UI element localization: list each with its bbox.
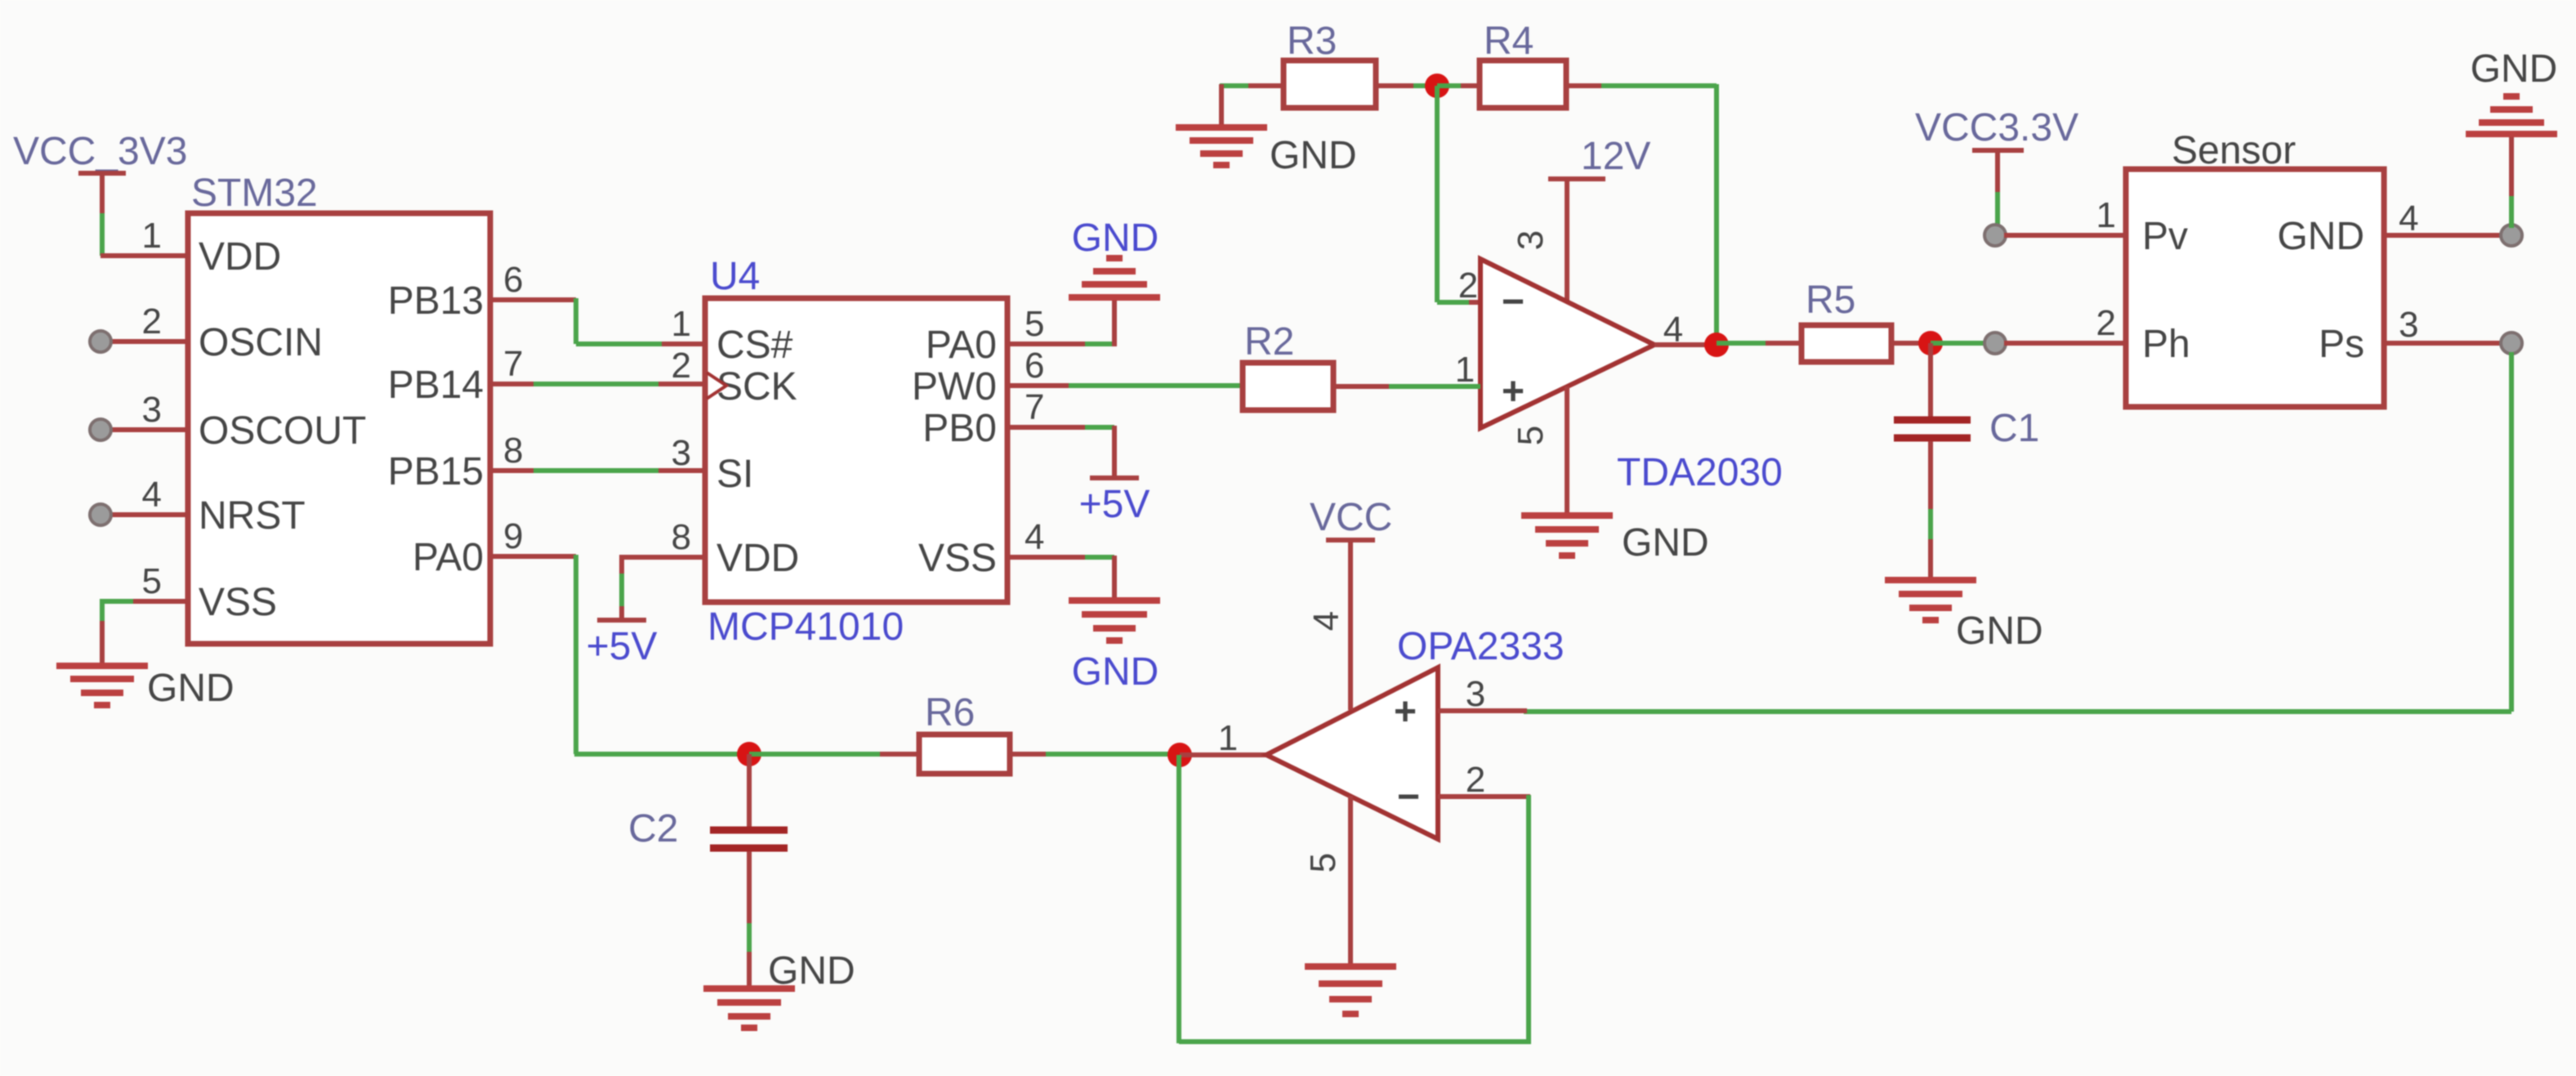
wire left of R3 — [1220, 84, 1284, 124]
wire output to R5 — [1717, 341, 1801, 346]
pin 7 PB14 — [388, 344, 535, 407]
node output junction TDA — [1704, 333, 1729, 357]
svg-text:STM32: STM32 — [191, 172, 318, 215]
ground GND at OPA pin 5 — [1305, 967, 1396, 1014]
pin 1 Pv — [2096, 195, 2189, 258]
svg-text:NRST: NRST — [199, 494, 306, 538]
svg-text:MCP41010: MCP41010 — [708, 605, 904, 649]
ground GND top right — [2466, 47, 2557, 134]
wire PA0 net to C2 node — [574, 752, 749, 757]
svg-text:PB15: PB15 — [388, 450, 484, 493]
node junction R5/C1 — [1918, 331, 1943, 355]
svg-text:R5: R5 — [1806, 279, 1855, 322]
wire R5 to node — [1891, 341, 1931, 346]
power flag VCC at OPA — [1310, 496, 1392, 710]
pin 8 PB15 — [388, 431, 535, 493]
pin 4 NRST — [90, 475, 306, 538]
pin 3 OSCOUT — [90, 390, 366, 453]
resistor R2 — [1243, 320, 1333, 410]
wire node down to TDA pin 2 — [1437, 86, 1480, 302]
svg-text:R2: R2 — [1244, 320, 1294, 364]
svg-text:6: 6 — [503, 260, 523, 300]
svg-text:PW0: PW0 — [912, 365, 997, 409]
svg-text:C1: C1 — [1989, 407, 2039, 450]
node junction C2 — [737, 742, 761, 766]
pin 4 VSS — [918, 517, 1114, 599]
power flag VCC3.3V — [1915, 106, 2078, 229]
svg-text:2: 2 — [1466, 760, 1485, 800]
svg-text:1: 1 — [672, 304, 691, 344]
wire Ps feedback down and left — [1524, 352, 2511, 712]
ground GND at C2 — [703, 949, 855, 1028]
svg-text:TDA2030: TDA2030 — [1617, 451, 1783, 494]
pin 4 GND — [2277, 137, 2522, 258]
svg-text:GND: GND — [768, 949, 855, 993]
svg-text:Ph: Ph — [2142, 323, 2190, 366]
svg-text:VDD: VDD — [199, 235, 281, 279]
wire node to Ph pin dot — [1931, 333, 2126, 354]
svg-text:3: 3 — [672, 433, 691, 473]
ground GND at TDA pin 5 — [1521, 516, 1709, 565]
svg-text:8: 8 — [503, 431, 523, 471]
svg-text:+5V: +5V — [1079, 483, 1150, 526]
svg-text:−: − — [1502, 280, 1525, 324]
wire PB13 to CS# — [576, 298, 705, 344]
pin 4 output wire TDA — [1654, 310, 1717, 350]
wire VCC_3V3 to VDD — [100, 213, 188, 256]
svg-text:2: 2 — [672, 346, 691, 386]
svg-text:VSS: VSS — [199, 581, 277, 624]
svg-text:+5V: +5V — [587, 625, 658, 668]
chip U4 MCP41010 box — [705, 255, 1007, 649]
svg-text:5: 5 — [1511, 426, 1551, 445]
ground GND at STM32 VSS — [56, 666, 234, 710]
pin 8 VDD — [622, 517, 799, 618]
wire node to R6 — [749, 752, 919, 757]
wire PB14 to SCK — [534, 382, 705, 386]
pin 9 PA0 — [413, 516, 576, 579]
pin 2 OSCIN — [90, 301, 323, 364]
wire R6 to OPA node — [1010, 752, 1180, 757]
resistor R6 — [919, 691, 1010, 774]
svg-text:Ps: Ps — [2319, 323, 2364, 366]
pin 1 CS# — [672, 304, 793, 367]
svg-text:OSCIN: OSCIN — [199, 321, 323, 364]
svg-text:Sensor: Sensor — [2172, 129, 2296, 172]
svg-text:1: 1 — [1218, 718, 1238, 758]
pin 3 SI — [672, 433, 754, 496]
pin 6 PB13 — [388, 260, 576, 323]
svg-text:Pv: Pv — [2142, 215, 2188, 258]
pin 5 wire OPA to ground — [1348, 796, 1353, 964]
svg-text:U4: U4 — [710, 255, 760, 298]
svg-text:5: 5 — [142, 561, 162, 601]
svg-text:GND: GND — [2277, 215, 2364, 258]
svg-text:+: + — [1394, 690, 1417, 734]
svg-text:4: 4 — [1025, 517, 1044, 557]
svg-text:3: 3 — [1511, 230, 1551, 250]
svg-text:CS#: CS# — [717, 324, 793, 367]
svg-text:2: 2 — [142, 301, 162, 342]
svg-text:+: + — [1502, 370, 1525, 413]
svg-text:4: 4 — [142, 475, 162, 515]
resistor R5 — [1801, 279, 1891, 362]
svg-text:8: 8 — [672, 517, 691, 557]
svg-text:C2: C2 — [628, 807, 678, 851]
wire node to R4 — [1437, 83, 1480, 88]
wire PB15 to SI — [534, 468, 705, 473]
svg-text:VCC_3V3: VCC_3V3 — [13, 130, 187, 173]
svg-text:VDD: VDD — [717, 537, 799, 580]
resistor R4 — [1480, 20, 1566, 108]
power flag +5V at MCP VDD — [587, 620, 658, 668]
svg-text:PB14: PB14 — [388, 364, 484, 407]
power flag VCC_3V3 — [13, 130, 187, 215]
node junction OPA pin 1 — [1167, 743, 1192, 767]
svg-text:OPA2333: OPA2333 — [1397, 625, 1565, 668]
svg-text:PA0: PA0 — [413, 536, 484, 579]
pin 2 Ph — [2096, 303, 2190, 366]
svg-text:4: 4 — [2399, 199, 2418, 239]
svg-text:−: − — [1397, 775, 1420, 819]
ground GND above MCP pin 5 — [1069, 217, 1160, 297]
pin 6 PW0 — [912, 346, 1070, 409]
ground GND at C1 — [1885, 580, 2043, 653]
wire R4 to output node — [1566, 84, 1717, 345]
svg-text:1: 1 — [142, 216, 162, 256]
pin dot and wire to Sensor Pv — [1984, 225, 2126, 246]
svg-text:5: 5 — [1025, 304, 1044, 344]
power flag 12V — [1548, 135, 1650, 301]
svg-text:GND: GND — [1072, 650, 1159, 694]
svg-text:SI: SI — [717, 453, 753, 496]
svg-text:GND: GND — [1072, 217, 1159, 260]
svg-text:6: 6 — [1025, 346, 1044, 386]
wire PW0 to R2 — [1069, 383, 1243, 388]
op-amp U? TDA2030 — [1480, 259, 1783, 494]
capacitor C2 — [628, 754, 788, 986]
svg-text:3: 3 — [2399, 305, 2418, 345]
ground GND below MCP pin 4 — [1069, 601, 1160, 694]
svg-text:R6: R6 — [925, 691, 975, 734]
svg-text:2: 2 — [1458, 266, 1478, 306]
resistor R3 — [1284, 20, 1376, 108]
chip Sensor box — [2126, 129, 2384, 407]
pin 1 VDD — [142, 216, 282, 279]
svg-text:1: 1 — [2096, 195, 2116, 235]
pin 2 SCK — [672, 346, 797, 409]
op-amp U? OPA2333 — [1266, 625, 1565, 839]
svg-text:GND: GND — [1270, 134, 1357, 177]
pin 3 wire OPA — [1438, 674, 1527, 714]
pin 1 wire OPA — [1180, 718, 1268, 758]
power flag +5V at MCP PB0 — [1079, 478, 1150, 526]
svg-text:3: 3 — [1466, 674, 1485, 714]
capacitor C1 — [1894, 343, 2039, 578]
wire PA0 net vertical — [574, 555, 578, 754]
svg-text:VSS: VSS — [918, 537, 997, 580]
node junction R3/R4 — [1425, 74, 1449, 98]
svg-text:GND: GND — [147, 667, 234, 710]
svg-text:3: 3 — [142, 390, 162, 430]
svg-text:9: 9 — [503, 516, 523, 556]
svg-text:5: 5 — [1303, 853, 1343, 873]
svg-text:VCC: VCC — [1310, 496, 1392, 539]
svg-text:R4: R4 — [1484, 20, 1534, 63]
svg-text:GND: GND — [2471, 47, 2558, 91]
svg-text:7: 7 — [1025, 387, 1044, 427]
ground GND left of R3 — [1176, 127, 1357, 177]
svg-text:PB0: PB0 — [922, 407, 997, 450]
svg-text:2: 2 — [2096, 303, 2116, 343]
svg-text:7: 7 — [503, 344, 523, 384]
svg-text:4: 4 — [1306, 611, 1346, 631]
svg-text:VCC3.3V: VCC3.3V — [1915, 106, 2078, 150]
wire OPA feedback loop — [1179, 755, 1531, 1043]
pin 5 PA0 — [926, 301, 1114, 367]
svg-text:OSCOUT: OSCOUT — [199, 409, 366, 453]
pin 2 wire OPA — [1438, 760, 1530, 800]
svg-text:1: 1 — [1455, 350, 1475, 390]
svg-text:R3: R3 — [1287, 20, 1337, 63]
svg-text:GND: GND — [1622, 521, 1709, 565]
svg-text:PB13: PB13 — [388, 279, 484, 323]
pin 3 Ps — [2319, 305, 2522, 366]
wire R2 to TDA pin 1 — [1333, 384, 1480, 389]
svg-text:GND: GND — [1956, 609, 2043, 653]
wire R3 to node — [1376, 83, 1437, 88]
svg-text:12V: 12V — [1581, 135, 1650, 178]
pin 7 PB0 — [922, 387, 1114, 476]
svg-text:SCK: SCK — [717, 365, 797, 409]
svg-text:PA0: PA0 — [926, 324, 997, 367]
chip U? STM32 box — [188, 172, 490, 644]
pin 5 VSS — [102, 561, 277, 664]
pin 5 wire TDA to ground — [1565, 386, 1569, 513]
